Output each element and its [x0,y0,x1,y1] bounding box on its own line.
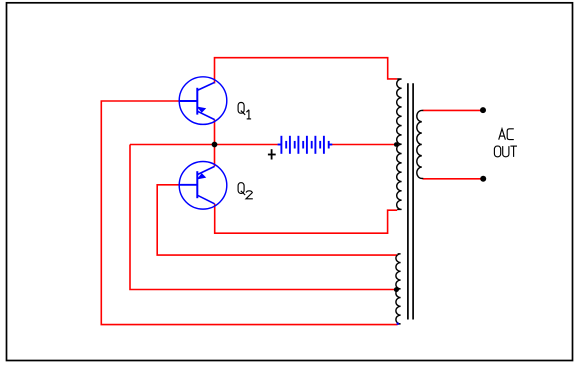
transformer T1 secondary winding [417,110,424,178]
wire: junction down to Q2 emitter [214,145,216,167]
wire: junction horizontal to battery [130,144,278,146]
feedback winding bottom blue mark [397,323,399,325]
wire: battery to primary center tap [332,144,395,146]
node: feedback center tap [394,287,399,292]
wire: Q1 emitter to junction [214,120,216,145]
transformer T1 feedback winding [396,254,401,324]
transformer core [408,83,413,319]
transistor Q2 [179,162,227,210]
label AC OUT [494,129,517,157]
wire: secondary bottom to AC OUT terminal [423,178,483,180]
terminal: AC OUT top [480,107,486,113]
wire: Q1 base loop to feedback winding bottom [101,101,397,325]
wire: Q2 base loop to feedback winding top [157,185,397,255]
wire: junction down to feedback center tap [130,145,395,290]
label Q1 [238,103,251,119]
node: primary center tap [394,142,399,147]
battery polarity label + [268,149,276,159]
node: emitter junction [212,142,218,148]
battery B1 [278,136,333,154]
label Q2 [238,183,253,199]
wire: Q2 collector to primary bottom [215,204,398,233]
transistor Q1 [179,77,227,125]
wire: Q1 collector to primary top [215,58,398,84]
terminal: AC OUT bottom [480,176,486,182]
wire: secondary top to AC OUT terminal [423,109,483,111]
transformer T1 primary winding [397,79,402,209]
